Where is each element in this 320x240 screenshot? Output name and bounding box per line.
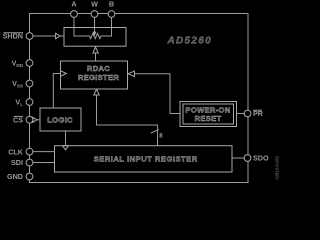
- wiper arrow of RDAC: [93, 32, 97, 37]
- svg-text:SDI: SDI: [11, 158, 23, 167]
- pin GND: [26, 173, 33, 180]
- svg-text:CLK: CLK: [8, 147, 24, 156]
- wire: PR input to POWER-ON RESET: [237, 113, 245, 115]
- resistor network block box: [64, 28, 126, 47]
- wire: RDAC register to resistor network: [95, 53, 97, 61]
- LOGIC block: [40, 108, 81, 131]
- POWER-ON RESET block (inner border): [183, 104, 234, 124]
- svg-text:02816-0-001: 02816-0-001: [275, 155, 280, 179]
- arrowhead: LOGIC into RDAC register: [61, 71, 67, 76]
- pin CS: [26, 116, 33, 123]
- arrowhead: into serial input register top: [63, 146, 69, 150]
- arrowhead: SHDN into block: [56, 33, 61, 38]
- svg-text:B: B: [109, 0, 114, 9]
- bus width slash: [151, 129, 159, 133]
- wire: CS input to LOGIC: [33, 119, 41, 121]
- pin SDO: [244, 155, 251, 162]
- pin SDI: [26, 159, 33, 166]
- svg-text:RESET: RESET: [195, 114, 222, 123]
- svg-text:RDAC: RDAC: [87, 64, 110, 73]
- svg-text:LOGIC: LOGIC: [47, 115, 73, 124]
- wire: SHDN input to resistor network block: [33, 35, 65, 37]
- pin VSS: [26, 80, 33, 87]
- RDAC register block: [61, 61, 128, 89]
- pin PR: [244, 110, 251, 117]
- wire: POWER-ON RESET to RDAC register: [135, 74, 181, 114]
- arrowhead: POR into RDAC register right edge: [128, 71, 135, 76]
- wire: CLK input to serial register: [33, 151, 55, 153]
- serial input register block: [55, 146, 233, 172]
- pin VDD: [26, 60, 33, 67]
- pin SHDN: [26, 33, 33, 40]
- svg-text:POWER-ON: POWER-ON: [185, 105, 230, 114]
- pin VL: [26, 99, 33, 106]
- resistor RDAC (zigzag between A and B): [90, 33, 102, 38]
- arrowhead: bus into RDAC register bottom: [94, 89, 99, 95]
- svg-text:AD5260: AD5260: [167, 36, 213, 47]
- wire: SDI input to serial register: [33, 162, 55, 164]
- wire: LOGIC to RDAC register: [53, 74, 60, 109]
- wire: LOGIC to serial input register: [65, 131, 67, 146]
- wire: terminal B lead into resistor network: [101, 14, 112, 36]
- wire: terminal A lead into resistor network: [74, 14, 90, 36]
- POWER-ON RESET block (outer border): [180, 102, 237, 127]
- wire: wiper W lead: [94, 14, 96, 32]
- pin B: [108, 11, 115, 18]
- pin W: [91, 11, 98, 18]
- wire: chip outline border: [30, 14, 249, 183]
- svg-text:SERIAL INPUT REGISTER: SERIAL INPUT REGISTER: [94, 155, 198, 164]
- arrowhead: CS into LOGIC: [33, 117, 37, 122]
- svg-text:W: W: [91, 0, 98, 9]
- pin A: [71, 11, 78, 18]
- svg-text:A: A: [71, 0, 76, 9]
- wire: 8-bit bus serial register to RDAC register: [97, 95, 158, 146]
- svg-text:GND: GND: [7, 172, 23, 181]
- arrowhead: into resistor network bottom: [93, 47, 98, 53]
- pin CLK: [26, 148, 33, 155]
- wire: serial register to SDO output: [232, 157, 245, 159]
- svg-text:SDO: SDO: [253, 154, 269, 163]
- svg-text:REGISTER: REGISTER: [78, 73, 119, 82]
